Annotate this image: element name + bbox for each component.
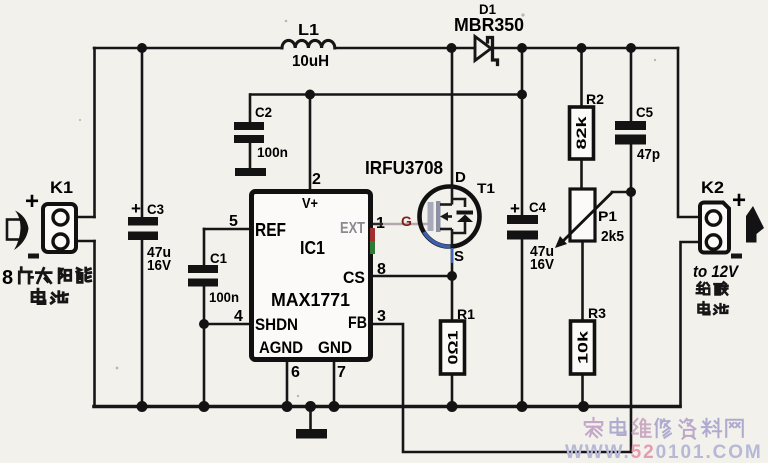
- wire P1 wiper to C5 line: [612, 191, 631, 194]
- svg-text:FB: FB: [348, 313, 367, 332]
- svg-text:CS: CS: [343, 268, 365, 287]
- svg-text:100n: 100n: [209, 289, 239, 305]
- svg-text:8: 8: [2, 267, 13, 289]
- junction C1 ground rail: [199, 401, 210, 412]
- ground bar below C2: [235, 168, 266, 176]
- black block arrow right output: [746, 206, 764, 243]
- svg-text:REF: REF: [255, 220, 286, 240]
- resistor R1: [441, 321, 465, 374]
- svg-text:3: 3: [377, 308, 386, 325]
- wire top rail left of L1: [94, 47, 282, 50]
- svg-text:SHDN: SHDN: [255, 315, 298, 334]
- svg-text:2: 2: [312, 171, 321, 188]
- wire K1 minus: [75, 240, 95, 243]
- svg-text:S: S: [454, 248, 464, 265]
- wire R3 bottom: [581, 374, 584, 406]
- wire IC pin2 vertical: [309, 95, 312, 190]
- resistor R3: [571, 321, 595, 374]
- svg-text:82k: 82k: [574, 116, 589, 150]
- text qiansuan lead-acid label right: [697, 282, 728, 294]
- junction C4 ground rail: [517, 401, 528, 412]
- transistor Q1 T1 IRFU3708 mosfet circle: [420, 187, 480, 247]
- junction GND pin7 rail: [329, 401, 340, 412]
- svg-text:+: +: [732, 187, 746, 214]
- ground symbol center: [296, 429, 327, 439]
- svg-text:10k: 10k: [575, 330, 590, 364]
- svg-text:G: G: [401, 213, 412, 229]
- wire C2 top lead: [249, 95, 252, 123]
- wire C1 top lead: [203, 229, 206, 265]
- svg-text:GND: GND: [318, 338, 352, 357]
- svg-text:MAX1771: MAX1771: [271, 290, 350, 310]
- capacitor C2: [234, 122, 264, 143]
- svg-text:47p: 47p: [637, 146, 660, 163]
- svg-text:R2: R2: [586, 91, 604, 107]
- wire K2 minus down to rail: [681, 242, 702, 406]
- junction C1 / SHDN: [199, 319, 209, 329]
- wire node V+ horizontal: [251, 93, 522, 96]
- wire T1 drain vertical: [451, 48, 454, 186]
- svg-text:IC1: IC1: [300, 238, 325, 258]
- wire P1 to R3: [581, 241, 584, 321]
- wire R1 bottom: [451, 374, 454, 406]
- svg-text:IRFU3708: IRFU3708: [365, 158, 443, 178]
- wire REF pin5: [204, 228, 249, 231]
- ground bottom rail: [94, 405, 680, 409]
- junction AGND pin6 rail: [282, 401, 293, 412]
- K1 minus sign: [28, 254, 39, 259]
- wire C1 bottom lead to rail: [203, 287, 206, 406]
- wire T1 source to R1: [451, 247, 454, 321]
- connector K2: [700, 203, 729, 253]
- svg-text:P1: P1: [598, 208, 617, 224]
- wire right vertical to K2 plus: [678, 48, 701, 217]
- wire left vertical from top rail to K1 plus: [93, 48, 96, 217]
- svg-text:+: +: [510, 199, 520, 218]
- red artifact mark at pin1: [370, 228, 375, 241]
- wire EXT to gate: [374, 223, 429, 225]
- junction IC1 V+ pin2 node: [305, 90, 315, 100]
- svg-text:AGND: AGND: [259, 338, 303, 357]
- wire GND pin7: [333, 362, 336, 406]
- T1 internal connections: [440, 186, 465, 247]
- capacitor C1: [188, 265, 218, 287]
- svg-text:16V: 16V: [147, 257, 171, 274]
- blue arc artifact on T1 circle: [424, 232, 451, 247]
- svg-text:C1: C1: [210, 250, 227, 266]
- wire K1 plus to left vertical: [75, 216, 95, 219]
- svg-text:C4: C4: [529, 199, 546, 215]
- T1 channel bar: [436, 201, 441, 232]
- svg-text:5: 5: [229, 213, 238, 230]
- junction C5 top rail: [626, 43, 636, 53]
- K2 minus sign: [731, 254, 742, 259]
- T1 body diode: [457, 211, 474, 215]
- svg-text:7: 7: [337, 364, 346, 381]
- junction P1 wiper / C5 / FB: [626, 187, 636, 197]
- svg-text:C3: C3: [147, 201, 164, 217]
- wire FB pin3 route: [373, 324, 631, 452]
- op IC1 MAX1771 box: [252, 192, 371, 360]
- wire left vertical from K1 minus to bottom rail: [93, 241, 96, 406]
- text 8pian taiyangneng solar cells label: [2, 267, 91, 289]
- wire EXT stub at pin 1: [373, 223, 383, 225]
- junction D1 cathode / output node: [517, 43, 527, 53]
- wire C5 top: [630, 48, 633, 121]
- potentiometer P1: [570, 189, 595, 241]
- svg-text:R3: R3: [588, 305, 606, 321]
- svg-text:2k5: 2k5: [601, 228, 624, 245]
- svg-text:0Ω1: 0Ω1: [445, 330, 460, 365]
- junction V+ wire to C4 vertical: [517, 90, 527, 100]
- svg-text:R1: R1: [457, 306, 475, 322]
- watermark jiadian weixiu ziliao wang: [585, 418, 743, 439]
- T1 arrow into channel: [440, 212, 448, 221]
- svg-text:WWW.520101.COM: WWW.520101.COM: [565, 442, 763, 463]
- wire top rail right of D1: [493, 47, 678, 50]
- svg-text:D: D: [455, 169, 466, 186]
- junction CS / T1 source / R1: [447, 271, 457, 281]
- junction R1 ground rail: [447, 401, 458, 412]
- text dianchi battery label left: [32, 289, 68, 303]
- svg-text:V+: V+: [302, 195, 318, 212]
- wire output vertical x522 lower: [521, 240, 524, 406]
- junction C3 ground rail: [137, 401, 148, 412]
- svg-text:10uH: 10uH: [292, 53, 329, 70]
- svg-text:16V: 16V: [530, 256, 554, 273]
- wire C5 bottom long vertical to FB route: [630, 145, 633, 452]
- junction ground symbol stub: [305, 401, 316, 412]
- capacitor C3: [128, 217, 158, 240]
- capacitor C4: [507, 215, 538, 240]
- wire ground stub center: [309, 406, 312, 429]
- white block arrow left input: [7, 220, 22, 240]
- svg-text:4: 4: [234, 308, 243, 325]
- svg-text:+: +: [131, 199, 141, 218]
- text dianchi battery label right: [698, 302, 728, 314]
- svg-text:K1: K1: [50, 178, 73, 197]
- svg-text:C2: C2: [255, 104, 272, 120]
- svg-text:K2: K2: [701, 178, 724, 197]
- junction R3 ground rail: [578, 401, 589, 412]
- wire SHDN pin4: [204, 323, 249, 326]
- connector K1: [43, 204, 76, 252]
- wire R2 top: [580, 48, 583, 107]
- svg-text:6: 6: [291, 364, 300, 381]
- svg-text:to 12V: to 12V: [693, 263, 740, 281]
- svg-text:C5: C5: [636, 104, 653, 120]
- svg-text:EXT: EXT: [340, 220, 365, 237]
- capacitor C5: [615, 121, 646, 145]
- blue artifact on source wire: [451, 248, 454, 263]
- wire C3 branch top: [141, 48, 144, 217]
- svg-text:L1: L1: [298, 22, 319, 39]
- svg-text:MBR350: MBR350: [454, 15, 524, 35]
- wire R2 to P1: [580, 159, 583, 189]
- junction R2 top rail: [577, 43, 587, 53]
- wire C2 bottom lead: [249, 143, 252, 168]
- svg-text:8: 8: [377, 261, 386, 278]
- svg-text:+: +: [25, 188, 39, 215]
- inductor L1: [282, 40, 335, 48]
- diode D1 MBR350: [475, 37, 491, 61]
- wire AGND pin6: [286, 362, 289, 406]
- junction D1 anode / T1 drain: [447, 43, 457, 53]
- T1 gate bar: [428, 202, 434, 231]
- green artifact mark below pin1: [370, 241, 375, 254]
- wire output vertical x522 upper: [521, 48, 524, 215]
- wire top rail right of L1: [335, 47, 475, 50]
- resistor R2: [570, 107, 594, 159]
- junction C3 top rail: [137, 43, 147, 53]
- wire CS pin8: [373, 275, 452, 278]
- svg-text:T1: T1: [477, 180, 495, 196]
- speck noise marks: [79, 13, 656, 397]
- wire C3 branch bottom: [141, 240, 144, 406]
- svg-text:100n: 100n: [257, 144, 288, 160]
